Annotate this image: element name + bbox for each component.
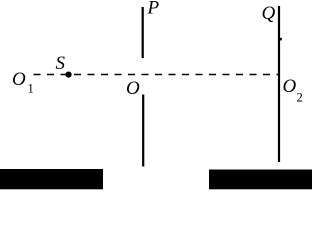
label O2 xyxy=(283,76,303,105)
tick mark on screen xyxy=(280,38,282,41)
slit barrier lower half xyxy=(142,95,144,167)
svg-text:O: O xyxy=(126,78,140,99)
svg-text:S: S xyxy=(56,53,66,74)
svg-text:Q: Q xyxy=(262,3,276,24)
svg-text:2: 2 xyxy=(297,91,303,105)
svg-text:1: 1 xyxy=(28,82,34,96)
svg-text:O: O xyxy=(283,76,297,97)
optical axis: dashed line from O1 to screen xyxy=(34,74,279,76)
slit barrier upper half xyxy=(142,7,144,58)
black band bottom right xyxy=(209,170,312,190)
black band bottom left xyxy=(0,169,103,189)
point source S (dot) xyxy=(65,72,71,78)
svg-text:O: O xyxy=(12,69,26,90)
label O1 xyxy=(12,69,34,96)
screen (vertical line Q to bottom) xyxy=(278,6,280,162)
svg-text:P: P xyxy=(147,0,160,19)
